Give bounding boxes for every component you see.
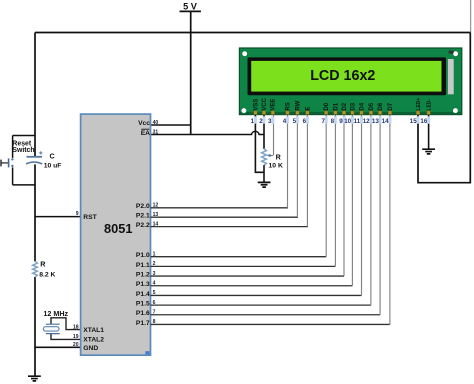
svg-text:D5: D5 (369, 102, 375, 110)
wire Vcc pin40 to 5V (151, 124, 191, 126)
wire LCD pin1 VSS to gnd rail (255, 114, 264, 172)
svg-text:3: 3 (268, 118, 272, 125)
IC U1 8051 microcontroller (81, 114, 151, 355)
wire P1.1 to LCD (151, 265, 336, 267)
svg-text:9: 9 (76, 211, 79, 217)
wire P2.1 to LCD (151, 216, 299, 218)
svg-text:P2.2: P2.2 (136, 222, 150, 229)
svg-text:10 K: 10 K (269, 162, 283, 169)
wire LCD pin4 RS vertical (287, 115, 289, 208)
svg-text:VEE: VEE (271, 99, 277, 111)
wire left rail (34, 33, 36, 377)
wire RST (35, 216, 81, 218)
svg-text:Switch: Switch (12, 147, 34, 154)
wire LCD pin14 D7 vertical (389, 115, 391, 325)
svg-text:E: E (305, 107, 311, 111)
wire P1.6 to LCD (151, 314, 381, 316)
potentiometer R 10 K (262, 149, 267, 166)
svg-text:40: 40 (153, 120, 159, 126)
svg-text:7: 7 (321, 118, 325, 125)
svg-text:10: 10 (344, 118, 351, 125)
svg-text:4: 4 (283, 118, 287, 125)
svg-text:LCD 16x2: LCD 16x2 (310, 68, 375, 84)
svg-text:12 MHz: 12 MHz (43, 309, 68, 318)
wire LCD pin6 E vertical (306, 115, 308, 227)
svg-text:RW: RW (295, 100, 301, 110)
svg-text:LED+: LED+ (416, 98, 422, 111)
svg-text:10 uF: 10 uF (44, 162, 62, 169)
svg-text:D3: D3 (350, 102, 356, 110)
svg-text:5: 5 (293, 118, 297, 125)
svg-text:P1.1: P1.1 (136, 262, 150, 269)
wire LCD pin3 VEE to wiper (273, 115, 275, 156)
wire LCD pin10 D3 vertical (351, 115, 353, 286)
wire P1.3 to LCD (151, 285, 353, 287)
resistor R 8.2 K (33, 261, 38, 277)
svg-text:RS: RS (285, 102, 291, 110)
svg-text:XTAL1: XTAL1 (83, 327, 104, 334)
svg-text:D7: D7 (388, 102, 394, 110)
svg-text:EA: EA (141, 130, 150, 137)
svg-text:P1.7: P1.7 (136, 320, 150, 327)
svg-text:D1: D1 (333, 102, 339, 110)
wire P1.0 to LCD (151, 256, 327, 258)
switch SW reset (1, 162, 8, 164)
wire crystal top lead (51, 318, 81, 330)
svg-text:D0: D0 (324, 102, 330, 110)
svg-text:P1.3: P1.3 (136, 281, 150, 288)
ground under pot (258, 182, 271, 187)
svg-text:9: 9 (339, 118, 343, 125)
svg-text:5 V: 5 V (183, 2, 198, 12)
wire LCD pin8 D1 vertical (334, 115, 336, 267)
capacitor C 10 uF (27, 156, 43, 158)
svg-text:31: 31 (153, 129, 159, 135)
wire P1.5 to LCD (151, 304, 371, 306)
svg-text:R: R (40, 259, 46, 268)
wire 5V vertical (190, 11, 192, 134)
wire LCD pin12 D5 vertical (370, 115, 372, 306)
wire top power rail (35, 32, 470, 34)
wire LCD pin16 LED- to ground (428, 114, 430, 149)
wire LCD pin11 D4 vertical (361, 115, 363, 296)
wire P1.7 to LCD (151, 323, 390, 325)
svg-text:Vcc: Vcc (138, 120, 150, 127)
svg-text:11: 11 (354, 118, 361, 125)
svg-text:D6: D6 (378, 102, 384, 110)
svg-text:14: 14 (382, 118, 389, 125)
svg-text:13: 13 (372, 118, 379, 125)
wire LCD pin9 D2 vertical (343, 115, 345, 277)
wire P1.4 to LCD (151, 294, 362, 296)
wire EA pin31 (hop over pin1 wire) (151, 131, 265, 134)
svg-text:P2.0: P2.0 (136, 203, 150, 210)
svg-text:8051: 8051 (104, 221, 132, 236)
svg-text:6: 6 (303, 118, 307, 125)
svg-text:1: 1 (251, 118, 255, 125)
wire LCD pin7 D0 vertical (325, 115, 327, 257)
svg-text:P2.1: P2.1 (136, 213, 150, 220)
svg-text:C: C (50, 152, 55, 161)
svg-text:P1.6: P1.6 (136, 310, 150, 317)
svg-text:XTAL2: XTAL2 (83, 337, 104, 344)
svg-text:GND: GND (83, 345, 98, 352)
svg-text:20: 20 (73, 342, 79, 348)
svg-text:18: 18 (73, 324, 79, 330)
wire P1.2 to LCD (151, 275, 345, 277)
border artifact (470, 0, 472, 33)
svg-text:D4: D4 (359, 102, 365, 110)
wire LCD pin13 D6 vertical (379, 115, 381, 315)
svg-text:D2: D2 (342, 102, 348, 110)
wire reset branch (13, 136, 35, 185)
svg-text:16: 16 (420, 118, 427, 125)
svg-text:R: R (276, 153, 282, 162)
LCD 16x2 module (239, 48, 461, 115)
svg-text:VSS: VSS (253, 99, 259, 111)
svg-text:12: 12 (363, 118, 370, 125)
ground under LED- (422, 149, 435, 154)
ground bottom-left (28, 376, 41, 381)
svg-text:19: 19 (73, 334, 79, 340)
svg-text:8: 8 (331, 118, 335, 125)
svg-text:VCC: VCC (262, 97, 268, 110)
svg-text:8.2 K: 8.2 K (39, 271, 55, 278)
wire crystal bottom lead (51, 334, 81, 339)
wire P2.2 to LCD (151, 226, 309, 228)
wire LCD pin2 VCC down to pot (263, 114, 265, 149)
svg-text:P1.5: P1.5 (136, 301, 150, 308)
svg-text:LED-: LED- (427, 99, 433, 111)
svg-text:2: 2 (259, 118, 263, 125)
svg-text:RST: RST (83, 214, 97, 221)
wire right loop to LCD pin15 LED+ (418, 33, 470, 183)
svg-text:15: 15 (410, 118, 417, 125)
svg-text:P1.0: P1.0 (136, 252, 150, 259)
wire LCD pin5 RW vertical (296, 115, 298, 218)
wire P2.0 to LCD (151, 207, 289, 209)
wire GND pin20 (35, 346, 81, 348)
svg-text:P1.4: P1.4 (136, 291, 150, 298)
svg-text:P1.2: P1.2 (136, 271, 150, 278)
